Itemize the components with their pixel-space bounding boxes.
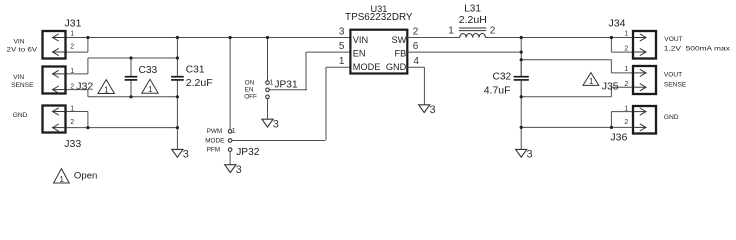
wire right gnd rail: [521, 96, 611, 98]
connector J36: [633, 106, 656, 134]
svg-text:2.2uH: 2.2uH: [459, 14, 487, 26]
svg-text:Open: Open: [74, 171, 97, 182]
wire J34 pin2-to-pin1 vertical: [610, 38, 612, 53]
wire J32 pin1 riser: [87, 58, 89, 74]
svg-text:ON: ON: [245, 79, 255, 86]
svg-text:2: 2: [413, 27, 419, 38]
svg-text:1: 1: [148, 84, 153, 94]
svg-text:2: 2: [70, 43, 74, 50]
svg-text:1: 1: [624, 66, 628, 73]
connector J34: [633, 31, 656, 59]
svg-text:VIN: VIN: [13, 74, 24, 81]
svg-text:GND: GND: [386, 62, 407, 72]
svg-text:3: 3: [339, 27, 345, 38]
svg-text:5: 5: [339, 41, 345, 52]
op-amp U31 TPS62232DRY body: [350, 30, 407, 74]
wire J32 pin2 stub: [66, 89, 88, 91]
svg-text:OFF: OFF: [244, 94, 257, 101]
svg-text:VOUT: VOUT: [664, 71, 682, 78]
svg-text:2.2uF: 2.2uF: [186, 77, 213, 89]
ground below U31: [419, 105, 430, 113]
svg-text:1: 1: [624, 30, 628, 37]
wire JP32 PFM to ground: [229, 151, 231, 164]
wire J33 gnd run: [66, 127, 178, 129]
connector J32: [43, 67, 66, 94]
wire SW to L31: [407, 37, 460, 39]
ground below JP31: [262, 119, 273, 127]
svg-text:MODE: MODE: [353, 62, 381, 72]
svg-text:VIN: VIN: [353, 35, 368, 45]
ground below C32 column: [516, 149, 527, 157]
svg-text:2: 2: [624, 119, 628, 126]
wire JP31 EN to U31 EN: [269, 89, 307, 91]
jumper JP31: [266, 81, 270, 85]
svg-text:PWM: PWM: [207, 128, 223, 135]
wire L31 to J34 (VOUT): [485, 37, 633, 39]
svg-text:1.2V 500mA max: 1.2V 500mA max: [664, 46, 731, 53]
wire J31 pin2 stub: [66, 51, 88, 53]
svg-text:VIN: VIN: [14, 38, 25, 45]
svg-text:JP31: JP31: [274, 79, 298, 90]
svg-text:2: 2: [70, 119, 74, 126]
svg-text:J33: J33: [64, 138, 81, 150]
wire J31 pin2-to-pin1 vertical: [87, 38, 89, 53]
svg-text:MODE: MODE: [205, 137, 224, 144]
svg-text:1: 1: [270, 79, 274, 86]
svg-text:C33: C33: [139, 65, 158, 76]
svg-text:6: 6: [413, 41, 419, 52]
wire VIN drop to sense rail: [176, 38, 178, 59]
wire VIN net: J31 pin1 to U31 VIN: [66, 37, 351, 39]
open flag on C33: [142, 79, 158, 93]
wire J33 pin1 stub: [66, 111, 88, 113]
wire left gnd column: [176, 97, 178, 150]
svg-text:2: 2: [624, 45, 628, 52]
svg-text:4: 4: [413, 56, 419, 67]
svg-text:SENSE: SENSE: [11, 82, 34, 89]
open flag near J35: [583, 73, 599, 86]
svg-text:VOUT: VOUT: [664, 36, 682, 43]
svg-text:J31: J31: [65, 17, 82, 29]
wire U31 GND pin to ground: [407, 66, 424, 68]
svg-text:1: 1: [104, 84, 109, 94]
svg-text:PFM: PFM: [207, 146, 221, 153]
svg-text:EN: EN: [353, 49, 366, 59]
svg-text:1: 1: [339, 56, 345, 67]
wire sense rail horizontal: [88, 57, 177, 59]
legend: open flag: [54, 169, 70, 183]
connector J35: [633, 66, 656, 94]
svg-text:FB: FB: [395, 49, 407, 59]
wire VOUT/gnd column lower: [520, 80, 522, 149]
wire J35 pin2 stub: [611, 86, 633, 88]
wire JP31 OFF to ground: [267, 99, 269, 120]
wire VOUT sense run: [521, 59, 611, 61]
wire VIN drop to JP31 pin1: [267, 38, 269, 81]
svg-text:JP32: JP32: [236, 147, 260, 158]
svg-text:1: 1: [589, 76, 594, 86]
wire J33 pin1-to-pin2 vertical: [87, 112, 89, 128]
capacitor C31: [176, 58, 178, 77]
ground below JP32: [225, 165, 236, 173]
capacitor C33: [130, 58, 132, 77]
svg-text:2V to 6V: 2V to 6V: [7, 46, 38, 53]
wire VIN drop to JP32 pin1: [229, 38, 231, 130]
wire U31 FB to VOUT column: [407, 51, 521, 53]
svg-text:3: 3: [273, 119, 279, 131]
svg-text:GND: GND: [13, 112, 28, 119]
svg-text:J34: J34: [609, 17, 626, 29]
svg-text:2: 2: [490, 26, 496, 37]
wire J35 pin1 stub: [611, 72, 633, 74]
svg-text:SW: SW: [391, 35, 406, 45]
junction dots: [86, 36, 89, 39]
jumper JP32: [228, 130, 232, 134]
svg-text:C31: C31: [186, 65, 205, 76]
svg-text:3: 3: [430, 104, 436, 116]
wire J34 pin2 stub: [611, 51, 633, 53]
svg-text:EN: EN: [245, 87, 254, 94]
svg-text:C32: C32: [493, 71, 512, 82]
svg-text:2: 2: [624, 81, 628, 88]
svg-text:1: 1: [70, 106, 74, 113]
wire J36 pin1 stub: [611, 111, 633, 113]
svg-text:TPS62232DRY: TPS62232DRY: [345, 12, 413, 23]
connector J31: [43, 31, 66, 59]
open flag near J32: [98, 80, 114, 94]
svg-text:L31: L31: [464, 3, 481, 14]
wire VOUT column upper: [520, 38, 522, 77]
svg-text:GND: GND: [664, 114, 679, 121]
svg-text:J35: J35: [602, 80, 619, 92]
wire J32 pin1 stub: [66, 73, 88, 75]
svg-text:1: 1: [232, 128, 236, 135]
svg-text:1: 1: [70, 68, 74, 75]
connector J33: [43, 106, 66, 133]
svg-text:SENSE: SENSE: [664, 82, 687, 89]
svg-text:4.7uF: 4.7uF: [484, 84, 511, 96]
svg-text:3: 3: [527, 149, 533, 161]
wire J32 pin2 drop to gnd rail: [87, 90, 89, 97]
svg-text:1: 1: [59, 175, 64, 184]
svg-text:1: 1: [70, 30, 74, 37]
svg-text:J36: J36: [610, 132, 627, 144]
svg-text:1: 1: [624, 106, 628, 113]
svg-text:3: 3: [236, 164, 242, 176]
svg-text:1: 1: [448, 25, 454, 36]
ground below J33 rail: [172, 149, 183, 157]
svg-text:3: 3: [183, 149, 189, 161]
wire J36 gnd run: [521, 126, 633, 128]
wire JP32 MODE to U31 MODE: [232, 140, 325, 142]
inductor L31: [460, 33, 486, 37]
svg-text:J32: J32: [76, 80, 93, 92]
svg-text:2: 2: [70, 84, 74, 91]
wire left gnd rail: [88, 96, 177, 98]
capacitor C32: [520, 58, 522, 77]
